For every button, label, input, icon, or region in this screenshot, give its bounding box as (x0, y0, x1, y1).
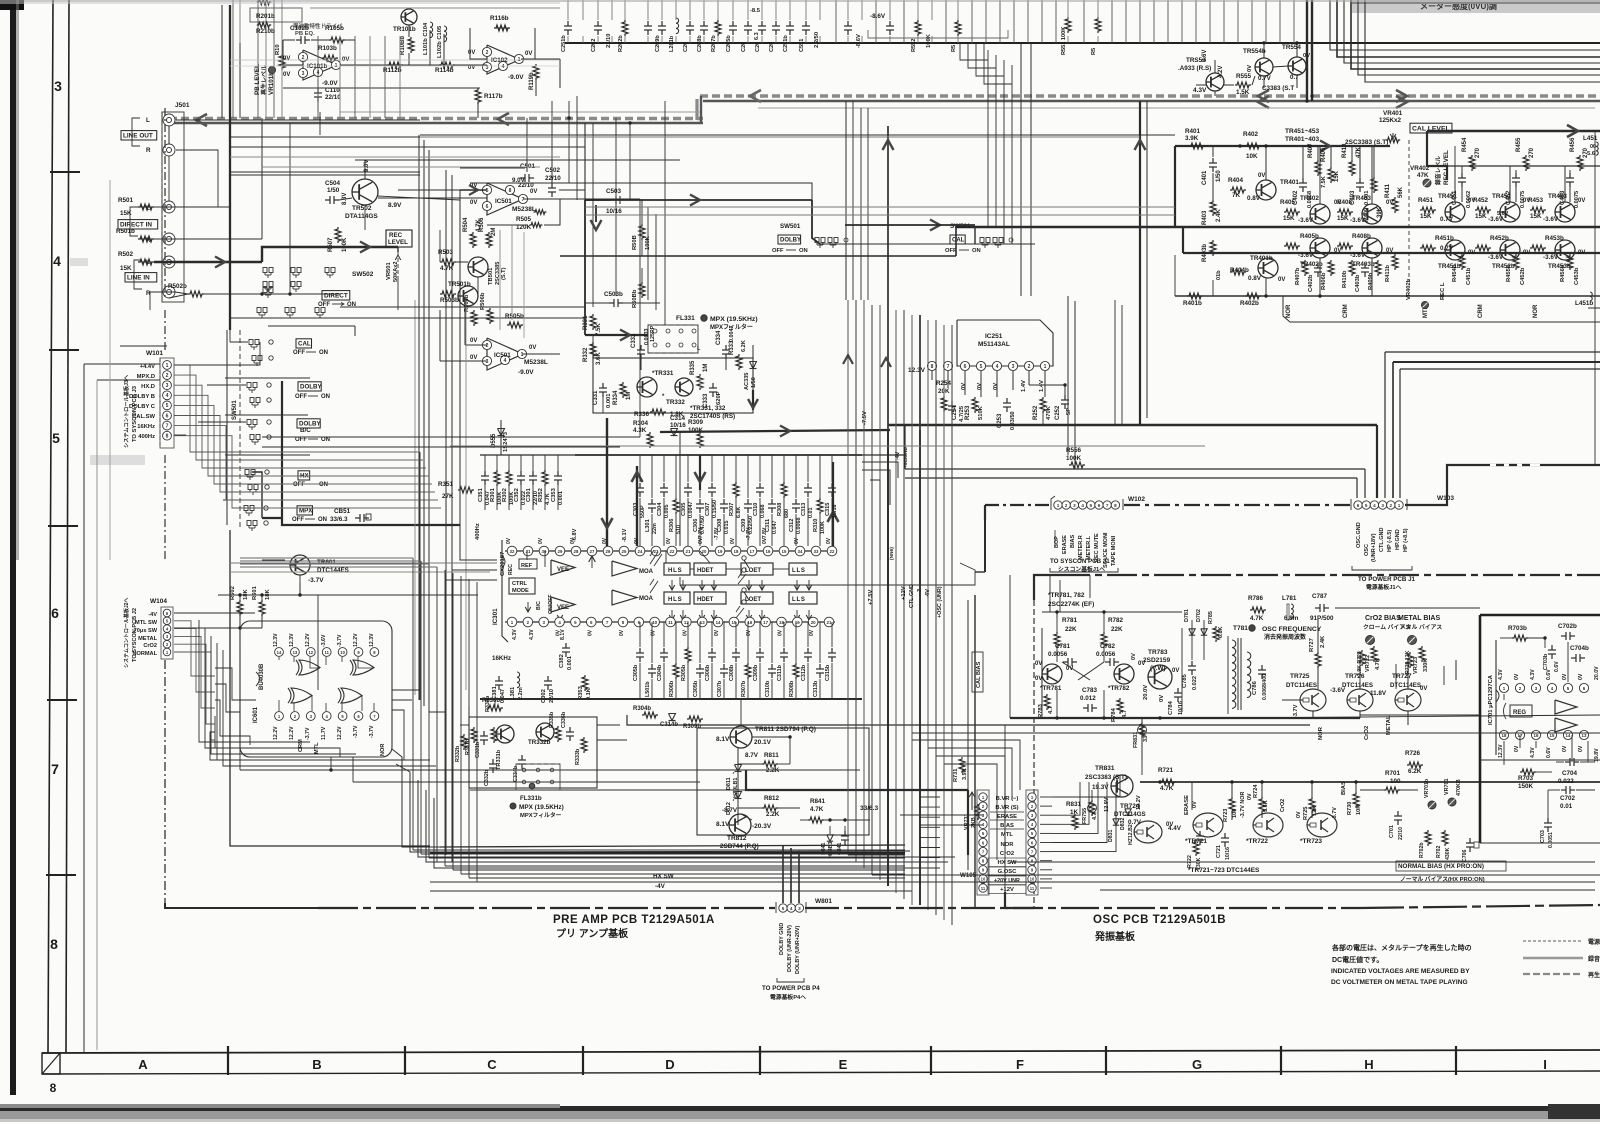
transistor TR451b (1420, 235, 1475, 270)
svg-text:0.7V: 0.7V (1258, 75, 1272, 82)
svg-text:0.7V: 0.7V (1440, 216, 1454, 223)
svg-text:3.9K: 3.9K (1185, 135, 1199, 142)
svg-text:20: 20 (702, 549, 707, 554)
svg-text:REF: REF (521, 563, 533, 569)
svg-text:C315: C315 (825, 503, 831, 516)
svg-text:METAL BIAS: METAL BIAS (1398, 615, 1440, 622)
resistor R702b col (1419, 830, 1431, 858)
svg-text:L: L (146, 117, 150, 124)
label PB EQ (293, 22, 343, 37)
ic switch symbol b (736, 588, 749, 618)
component row ic301 mid (633, 455, 838, 546)
border frame column tick x1281 (1280, 1046, 1282, 1075)
svg-text:0V: 0V (1258, 173, 1265, 179)
svg-text:28: 28 (574, 549, 579, 554)
svg-text:FL331: FL331 (676, 315, 695, 322)
svg-text:VR701b: VR701b (1424, 779, 1430, 798)
resistor R331 col (583, 314, 602, 336)
svg-text:+5C/GND: +5C/GND (903, 447, 909, 468)
svg-text:0.015: 0.015 (724, 521, 730, 535)
row label 4 (53, 253, 61, 269)
label TO POWER PCB P4 (762, 985, 820, 1001)
resistor R331b col (465, 727, 477, 755)
svg-text:15K: 15K (120, 265, 132, 272)
svg-text:TO SYSCON PCB J3: TO SYSCON PCB J3 (132, 385, 138, 442)
resistor R353 (578, 675, 592, 700)
label C3383 (1262, 85, 1294, 92)
svg-text:NOR: NOR (380, 744, 386, 756)
svg-text:C305b: C305b (693, 680, 699, 697)
capacitor C252 col (1055, 395, 1072, 420)
svg-text:3: 3 (54, 78, 62, 94)
svg-text:R410b: R410b (1342, 270, 1348, 288)
wire nested corner 5 (1358, 0, 1600, 75)
svg-text:C: C (487, 1057, 497, 1072)
svg-text:17: 17 (763, 620, 768, 625)
capacitor C336b col (561, 711, 574, 741)
svg-text:DTA114GS: DTA114GS (345, 213, 378, 220)
top scan streak (0, 0, 1600, 4)
svg-text:R402b: R402b (1240, 300, 1259, 307)
svg-text:C704: C704 (1562, 770, 1578, 777)
wire nested corner 4 (1351, 0, 1600, 69)
capacitor C786 (1252, 665, 1268, 700)
svg-text:HP.GND: HP.GND (1395, 529, 1401, 550)
svg-text:R401: R401 (1185, 128, 1201, 135)
fuse resistor FR755 (1082, 800, 1098, 824)
svg-text:13: 13 (1582, 733, 1587, 738)
svg-text:0.01: 0.01 (808, 508, 814, 519)
capacitor C403 col (1350, 178, 1370, 205)
svg-text:0.022: 0.022 (1192, 676, 1198, 690)
resistor R401 3.9K (1185, 128, 1205, 149)
wire sw501 feeds (174, 330, 260, 435)
svg-text:0.0047: 0.0047 (688, 502, 694, 519)
capacitor C314 (670, 415, 686, 436)
svg-text:C783: C783 (1082, 687, 1098, 694)
resistor R351 (438, 481, 481, 540)
svg-text:R453b: R453b (1545, 235, 1564, 242)
svg-text:-9.0V: -9.0V (322, 80, 338, 87)
svg-text:0V: 0V (1468, 250, 1475, 256)
svg-text:IC601: IC601 (253, 706, 259, 723)
svg-text:ON: ON (321, 437, 330, 443)
svg-text:TR101b: TR101b (393, 26, 416, 33)
svg-text:録音レベル: 録音レベル (1434, 156, 1442, 185)
svg-text:R453: R453 (1528, 197, 1544, 204)
transistor TR726 (1342, 673, 1374, 711)
svg-text:R408b: R408b (1352, 233, 1371, 240)
wire osc left verticals (968, 575, 1034, 908)
svg-text:C451b: C451b (1466, 267, 1472, 285)
svg-text:R727: R727 (1309, 638, 1315, 652)
svg-text:0V: 0V (1578, 745, 1584, 752)
svg-text:R601: R601 (252, 585, 258, 600)
svg-text:18: 18 (1502, 733, 1507, 738)
bus jog vertical x701 (697, 96, 701, 123)
svg-text:R334: R334 (613, 390, 619, 405)
svg-text:0V: 0V (666, 537, 672, 544)
label BIAS col (1341, 781, 1347, 795)
wire web mid long horiz (230, 120, 1175, 175)
svg-text:L451: L451 (1583, 135, 1598, 142)
svg-text:100: 100 (1232, 809, 1238, 818)
svg-text:4: 4 (790, 906, 793, 911)
label W103 signals (1352, 522, 1412, 570)
svg-text:2.2/50: 2.2/50 (814, 32, 820, 48)
bus arrow left x1266 (1258, 90, 1269, 108)
wire bundle right-mid verticals (848, 126, 952, 925)
resistor R407 col (1308, 143, 1327, 188)
svg-text:29: 29 (558, 549, 563, 554)
svg-text:TR783: TR783 (1148, 649, 1168, 656)
transformer T781 (1228, 625, 1322, 714)
svg-text:0V: 0V (730, 537, 736, 544)
svg-text:R10: R10 (275, 44, 281, 55)
wire thick x795 up (828, 462, 839, 546)
svg-text:1M: 1M (626, 392, 632, 400)
wire web ic501 to right (559, 101, 665, 432)
resistor R10x top (275, 44, 285, 70)
resistor R335 col (690, 360, 709, 390)
svg-text:R504: R504 (463, 217, 469, 232)
resistor R402 10K (1243, 131, 1261, 160)
svg-text:R506: R506 (479, 217, 485, 232)
op-amp IC501 upper (470, 177, 542, 231)
column label C (487, 1057, 497, 1072)
svg-text:SW501: SW501 (950, 223, 971, 230)
svg-text:26: 26 (606, 549, 611, 554)
svg-text:ON: ON (799, 248, 808, 254)
capacitor C334 col (716, 326, 735, 360)
svg-text:2.4K: 2.4K (1216, 209, 1222, 222)
wire vertical drop tl10 (384, 36, 386, 118)
wire W104 fanout (174, 621, 215, 740)
svg-text:15K: 15K (120, 210, 132, 217)
wire nested corner 6 (1365, 0, 1600, 82)
label REC LEVEL vertical (1434, 150, 1450, 185)
svg-text:47K: 47K (1356, 146, 1362, 158)
wire corner turns x988 top (960, 43, 1012, 84)
resistor R456b col (1560, 254, 1580, 285)
wire thick y425 bus (888, 424, 1377, 426)
jack LINE IN L (163, 256, 175, 268)
label volt row2 (698, 527, 768, 540)
svg-text:OSC: OSC (1364, 544, 1370, 556)
svg-text:DOLBY (UNR-20V): DOLBY (UNR-20V) (787, 925, 793, 972)
capacitor C254 (948, 401, 965, 422)
svg-text:D702: D702 (1196, 609, 1202, 622)
svg-text:HDET: HDET (697, 597, 714, 603)
svg-text:10: 10 (340, 650, 345, 655)
svg-text:470K: 470K (1046, 405, 1052, 420)
capacitor C452 col (1506, 173, 1526, 208)
wire vertical drop tl3 (265, 0, 267, 118)
svg-text:R452: R452 (1473, 197, 1489, 204)
potentiometer VR701 (1444, 779, 1462, 822)
wire NOR CRM corner labels (1283, 278, 1600, 322)
svg-text:R5: R5 (1091, 48, 1097, 55)
border frame row tick y875 (46, 874, 76, 876)
resistor R409b col (1368, 260, 1381, 290)
svg-text:30: 30 (542, 549, 547, 554)
svg-text:0V: 0V (556, 629, 562, 636)
svg-text:電源: 電源 (1588, 938, 1600, 946)
svg-text:MOA: MOA (639, 596, 654, 602)
svg-text:L101b C104: L101b C104 (423, 22, 429, 55)
svg-text:C304b: C304b (657, 664, 663, 681)
svg-text:R812: R812 (764, 795, 780, 802)
svg-text:R408: R408 (1337, 199, 1353, 206)
svg-text:-3.6V: -3.6V (1350, 252, 1366, 259)
svg-text:L381: L381 (510, 686, 516, 700)
wire SW501 box outline (223, 326, 355, 525)
svg-text:TR332b: TR332b (528, 739, 551, 746)
svg-text:R252: R252 (1033, 405, 1039, 420)
svg-text:100K: 100K (926, 33, 932, 48)
svg-text:-3.6V: -3.6V (1298, 217, 1314, 224)
svg-text:6.8K: 6.8K (1218, 627, 1224, 638)
jack DIRECT IN L (163, 201, 175, 213)
svg-text:R786: R786 (1248, 595, 1264, 602)
svg-text:C704b: C704b (1570, 645, 1589, 652)
svg-text:7: 7 (166, 423, 169, 429)
svg-text:20: 20 (811, 620, 816, 625)
svg-text:5.6: 5.6 (1587, 151, 1596, 157)
svg-text:4.3V: 4.3V (1530, 747, 1536, 758)
label HX SW -4V (430, 873, 912, 891)
svg-text:0V: 0V (1131, 653, 1137, 660)
svg-text:C351: C351 (478, 487, 484, 502)
svg-text:PRE AMP PCB T2129A501A: PRE AMP PCB T2129A501A (553, 914, 715, 926)
svg-text:R410: R410 (1342, 143, 1348, 158)
svg-text:3.6V: 3.6V (1202, 50, 1208, 62)
svg-text:16KHz: 16KHz (137, 424, 155, 430)
svg-text:0.022: 0.022 (1558, 778, 1574, 785)
ic LLS box b (789, 592, 817, 604)
svg-text:R50Bb: R50Bb (632, 289, 638, 308)
ic LOET box b (741, 592, 773, 604)
wire nested corner bl2 (396, 764, 448, 852)
svg-text:0.7: 0.7 (1290, 74, 1299, 81)
svg-text:REC: REC (389, 232, 403, 239)
component row top strip (561, 0, 1101, 55)
wire hx bundle lines (440, 845, 955, 868)
wire mid bundle top joins (240, 558, 437, 567)
ic IC701 bottom pins (1499, 730, 1588, 739)
svg-text:3: 3 (1381, 503, 1384, 508)
svg-text:0V: 0V (794, 537, 800, 544)
svg-text:100K: 100K (342, 237, 348, 252)
svg-text:C313b: C313b (813, 680, 819, 697)
border frame row tick y526 (48, 525, 78, 527)
svg-text:(NN6): (NN6) (889, 547, 895, 560)
svg-text:B/C: B/C (536, 601, 542, 610)
svg-text:R304b: R304b (633, 706, 651, 712)
svg-text:C401: C401 (1202, 170, 1208, 185)
svg-text:R505: R505 (516, 216, 532, 223)
resistor R309 col2 (688, 419, 704, 448)
svg-text:-4V: -4V (925, 589, 931, 598)
capacitor C331 col (593, 383, 612, 408)
svg-text:VEE: VEE (557, 567, 569, 573)
svg-text:CAL: CAL (298, 341, 311, 348)
svg-text:VR501: VR501 (386, 261, 392, 280)
svg-text:0.6V: 0.6V (1546, 747, 1552, 758)
border frame corner box (42, 1053, 60, 1074)
gate XOR B (350, 660, 374, 675)
svg-text:-8.5: -8.5 (750, 8, 761, 14)
diode AC335 (744, 362, 757, 391)
svg-text:0V: 0V (1334, 248, 1341, 254)
resistor R407b col (1295, 260, 1308, 285)
svg-text:B: B (312, 1057, 321, 1072)
capacitor C453 col (1560, 173, 1580, 208)
svg-text:0V: 0V (777, 629, 783, 636)
label DIRECT switch (318, 291, 356, 308)
transistor TR453b (1530, 235, 1585, 270)
ic REG box (1504, 703, 1533, 719)
resistor R702 col (1436, 830, 1451, 860)
svg-text:15K: 15K (1530, 213, 1542, 220)
svg-text:R210b: R210b (256, 28, 275, 35)
svg-text:R831: R831 (1066, 801, 1082, 808)
ic IC301 bottom pin row (505, 617, 835, 627)
svg-text:R407: R407 (1308, 143, 1314, 158)
svg-text:R309: R309 (688, 419, 704, 426)
label DIRECT IN (118, 205, 158, 244)
svg-text:D781: D781 (1184, 609, 1190, 622)
resistor R504b col (464, 294, 477, 326)
svg-text:R451: R451 (1418, 197, 1434, 204)
ic IC301 left outline (492, 540, 508, 642)
wire vertical x222 (221, 5, 223, 118)
transistor TR453 (1543, 193, 1585, 223)
svg-text:ERASE: ERASE (1062, 535, 1068, 554)
svg-text:REC L: REC L (1440, 282, 1446, 300)
svg-text:NORMAL BIAS (HX PRO:ON): NORMAL BIAS (HX PRO:ON) (1398, 863, 1484, 870)
svg-text:R405b: R405b (1300, 233, 1319, 240)
border frame row tick y700 (47, 699, 77, 701)
svg-text:ON: ON (318, 517, 327, 523)
switch block CAL (249, 339, 328, 366)
svg-text:-3.7V: -3.7V (308, 577, 324, 584)
capacitor C451 col (1452, 173, 1472, 208)
wire ic601 top feed (174, 583, 478, 652)
svg-text:DC VOLTMETER ON METAL TAPE: DC VOLTMETER ON METAL TAPE PLAYING (1331, 979, 1468, 986)
resistor R410 col (1342, 143, 1362, 176)
border frame vertical rules (48, 0, 69, 1053)
svg-text:L301: L301 (645, 519, 651, 532)
svg-text:TO POWER PCB P4: TO POWER PCB P4 (762, 985, 820, 992)
svg-text:FL331b: FL331b (520, 795, 542, 802)
resistor R812 (762, 795, 780, 818)
resistor R114b (435, 62, 455, 74)
svg-text:20.0V: 20.0V (1594, 666, 1600, 680)
svg-text:R301: R301 (490, 487, 496, 502)
svg-text:3: 3 (302, 71, 305, 77)
wire mid horiz y160 (230, 137, 1140, 172)
wire top strip bus y8 (310, 7, 560, 9)
resistor R452 (1473, 197, 1491, 220)
svg-text:R702b: R702b (1419, 842, 1425, 858)
resistor R406 col (1321, 147, 1340, 183)
svg-text:14: 14 (277, 650, 282, 655)
pcb boundary x985 extend (975, 520, 985, 572)
bus dashed upper segment (700, 96, 1600, 101)
svg-text:R207b: R207b (711, 35, 717, 52)
column label I (1543, 1057, 1547, 1072)
svg-text:R332b: R332b (455, 745, 461, 762)
svg-text:1: 1 (1044, 364, 1047, 370)
label IC601 top volts (273, 633, 375, 647)
svg-text:0V: 0V (1247, 65, 1253, 72)
svg-text:C701: C701 (1389, 825, 1395, 838)
svg-text:C782: C782 (1100, 643, 1116, 650)
capacitor C503b (604, 291, 623, 307)
svg-text:7: 7 (1106, 503, 1109, 508)
svg-text:CB51: CB51 (334, 508, 351, 515)
svg-text:3: 3 (798, 906, 801, 911)
svg-text:DC電圧値です。: DC電圧値です。 (1332, 955, 1383, 964)
transistor TR783 (1143, 649, 1179, 702)
component row ic301 bottom (633, 622, 836, 699)
svg-text:R406: R406 (1321, 147, 1327, 162)
svg-text:VR722: VR722 (1365, 655, 1371, 672)
svg-text:2SC3383 (S.T): 2SC3383 (S.T) (1085, 774, 1127, 781)
filter FL331b dashed box (516, 764, 560, 790)
transistor TR452b (1475, 235, 1530, 270)
svg-text:DOLBY: DOLBY (300, 384, 323, 391)
resistor R725 col (1296, 797, 1318, 820)
label PB LEVEL VR101b (254, 64, 276, 95)
ic IC251 outline (957, 320, 1053, 366)
svg-text:5P: 5P (1066, 408, 1072, 415)
svg-text:0.012: 0.012 (1080, 695, 1096, 702)
svg-text:HLS: HLS (668, 597, 682, 603)
filter FL331 dashed box (648, 315, 758, 353)
svg-text:MOA: MOA (639, 569, 654, 575)
wire vertical drop tl5 (281, 0, 283, 118)
wire web j501 to sw (138, 120, 340, 292)
pcb boundary bottom-left corner (165, 903, 318, 908)
svg-text:0V: 0V (1523, 250, 1530, 256)
svg-text:(UNR+18V): (UNR+18V) (1371, 533, 1377, 562)
wire thick rec path (262, 242, 398, 263)
resistor R555 (1235, 73, 1252, 96)
transistor TR554 (1282, 44, 1310, 81)
svg-text:18K: 18K (265, 589, 271, 600)
wire left edge long verticals (84, 180, 110, 1050)
svg-text:15K: 15K (1420, 213, 1432, 220)
wire thick vertical x1175 (1174, 146, 1176, 227)
resistor R254 (936, 380, 952, 412)
svg-text:INDICATED VOLTAGES ARE MEAS: INDICATED VOLTAGES ARE MEASURED BY (1331, 968, 1470, 975)
svg-text:R310: R310 (813, 519, 819, 532)
svg-text:MPX.D: MPX.D (137, 374, 155, 380)
svg-text:MODE: MODE (512, 588, 529, 594)
svg-text:.A933 (R.S): .A933 (R.S) (1178, 65, 1211, 72)
column label G (1192, 1057, 1202, 1072)
svg-text:OSC.GND: OSC.GND (1356, 522, 1362, 548)
resistor R724 col (1247, 784, 1269, 813)
transistor TR812 (720, 814, 759, 850)
wire vertical drop tl8 (354, 36, 356, 118)
svg-text:4.3V: 4.3V (1193, 87, 1207, 94)
wire bundle joins lower (848, 855, 1600, 882)
capacitor C787 (1310, 593, 1334, 622)
svg-text:0.001: 0.001 (606, 393, 612, 408)
